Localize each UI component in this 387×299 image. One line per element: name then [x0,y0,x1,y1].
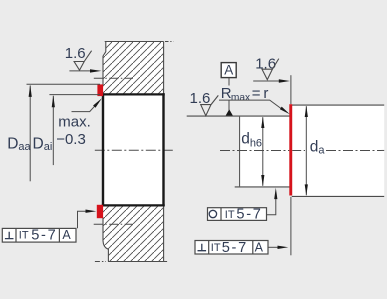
big section bottom edge [292,195,384,197]
extension line below shoulder [290,197,292,255]
roughness symbol left [74,51,92,70]
top edge break dash-dot [165,41,174,43]
svg-text:A: A [224,63,233,78]
housing upper block hatch [103,42,164,95]
Rmax leader shelf [219,100,282,109]
Dai dimension line [52,96,54,165]
housing lower block fill [103,205,164,261]
housing upper block fill [103,42,164,95]
phantom line upper [94,77,133,79]
max -0.3 leader [72,104,97,111]
roughness arrow left [69,70,92,72]
seat break line [239,117,241,187]
svg-text:1.6: 1.6 [255,55,276,72]
svg-text:IT: IT [211,242,221,254]
shaft axis center line [220,149,289,151]
svg-text:A: A [255,241,264,255]
Dai extension line [49,94,100,96]
roughness symbol seat [201,95,219,115]
Daa extension line [27,83,101,85]
svg-text:1.6: 1.6 [65,45,86,62]
leader from left frame to red mark [78,211,88,228]
red shoulder face line [289,104,292,195]
svg-text:5-7: 5-7 [236,207,262,223]
svg-text:max.: max. [58,113,91,130]
shaft big section white [292,106,384,196]
svg-text:−0.3: −0.3 [56,131,86,148]
svg-text:5-7: 5-7 [31,227,57,243]
tolerance frame circularity [208,207,267,223]
svg-text:IT: IT [225,209,235,221]
bottom edge break dash-dot right [164,261,169,263]
roughness arrow shoulder [253,80,281,82]
dh6 dimension line [262,117,264,186]
housing lower block hatch [103,205,164,261]
datum A box [221,63,236,78]
red contact mark bottom [97,205,103,218]
svg-text:A: A [62,228,71,242]
seat bottom edge [235,186,290,188]
roughness symbol shoulder [262,59,279,80]
tolerance frame perpendicular left [2,227,76,243]
svg-text:5-7: 5-7 [222,240,248,256]
phantom line lower [94,223,133,225]
svg-text:IT: IT [19,230,29,242]
datum triangle [226,109,233,115]
bore seat edges thick [102,94,165,205]
bottom edge break dash-dot left [95,261,106,263]
bore white area [104,96,162,205]
Daa dimension line [29,86,31,182]
shaft seat white [240,117,290,187]
leader circularity to seat [267,198,276,215]
datum leader [228,78,230,110]
tolerance frame perpendicular right [195,240,268,256]
leader perpendicular right to shoulder [268,246,279,248]
red contact mark top [97,84,103,96]
seat top edge [187,115,290,117]
housing outline thin [103,41,164,261]
extension line above shoulder [290,75,292,104]
da dimension line [305,106,307,195]
bore axis center line [95,149,174,151]
big section top edge [291,104,385,106]
